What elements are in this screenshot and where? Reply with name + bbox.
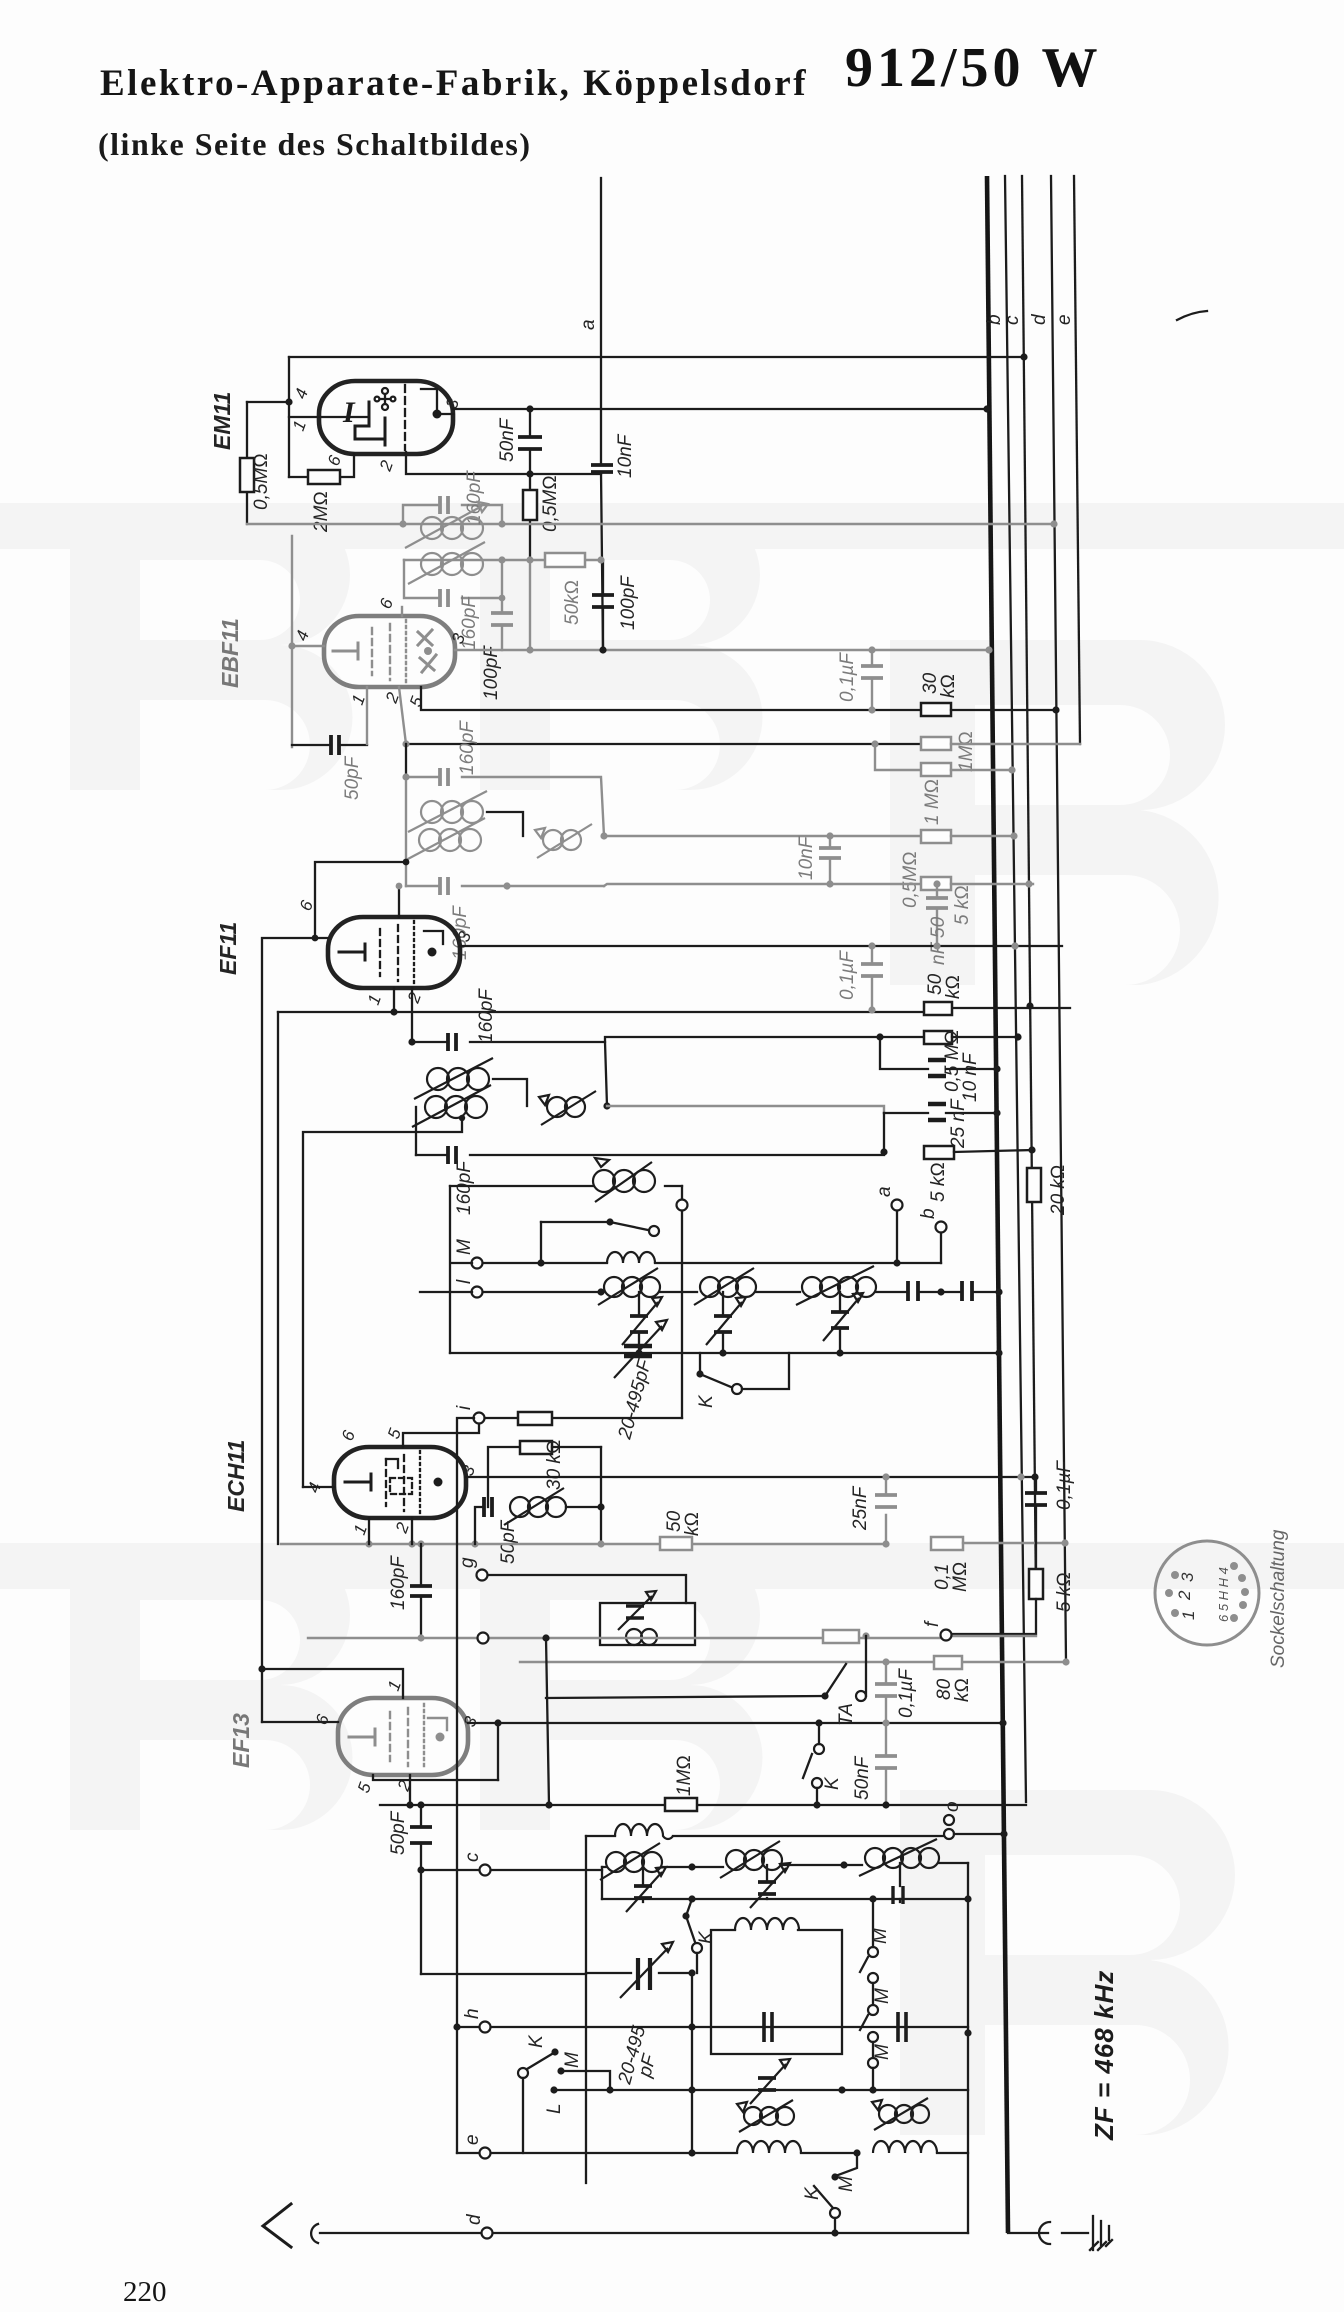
wire 5k to bus d [951,883,1033,885]
svg-text:kΩ: kΩ [682,1512,703,1536]
junction pin3 drop [494,1719,501,1726]
resistor 50kOhm cathode [660,1510,703,1550]
svg-text:K: K [696,1930,717,1944]
svg-text:6: 6 [324,452,345,468]
wire to bus b [972,1291,999,1293]
trimmer band [750,2059,790,2104]
svg-text:EF11: EF11 [215,922,241,975]
padder box [600,1591,695,1645]
junction on b [993,1065,1000,1072]
junction [688,2023,695,2030]
junction pin2 [402,740,409,747]
junction [826,832,833,839]
coil bottom 1 [737,2141,801,2153]
switch K mixer [696,1353,789,1408]
junction [813,1801,820,1808]
wire 5k to d [954,1150,1033,1152]
junction [853,2149,860,2156]
switch K wave left [518,2034,559,2153]
capacitor right chain [898,2012,906,2042]
junction [498,556,505,563]
junction [831,2229,838,2236]
capacitor 10nF on line a [591,433,636,478]
capacitor 10nF horizontal [880,1037,997,1102]
svg-text:M: M [562,2052,583,2068]
junction [453,2023,460,2030]
socket circle [1155,1541,1259,1645]
junction tertiary right [600,832,607,839]
IF3 primary coil [414,1058,493,1099]
watermark letter B [70,1545,353,1830]
wire 30k left leg [488,1447,518,1507]
junction [840,1861,847,1868]
wire EF13 pin6 [262,1721,338,1723]
wire EF11 screen row [278,1008,1070,1012]
wire EF11 grid link [315,862,406,938]
junction on bus b [983,405,990,412]
junction 0,5M chain bottom [526,646,533,653]
junction [597,1503,604,1510]
junction [933,880,940,887]
contact M [557,2052,610,2090]
junction [597,1540,604,1547]
svg-text:6 5 H H 4: 6 5 H H 4 [1216,1567,1231,1622]
wire EF11 plate row [460,945,1062,947]
wire l row left [420,1291,472,1293]
svg-text:10nF: 10nF [615,433,636,478]
junction [882,1801,889,1808]
bus e [1051,176,1066,1662]
svg-text:ZF = 468 kHz: ZF = 468 kHz [1089,1970,1119,2141]
node h circle [480,2022,491,2033]
svg-text:100pF: 100pF [618,575,639,630]
capacitor fixed right [893,1863,903,1904]
wire tuner row 2 [602,1898,968,1900]
svg-text:4: 4 [292,628,313,643]
junction [417,1540,424,1547]
junction [826,880,833,887]
svg-text:2: 2 [392,1519,414,1536]
wire node c row [421,1869,602,1871]
svg-text:d: d [464,2213,485,2225]
junction [1025,880,1032,887]
junction [719,1349,726,1356]
tuner box right vertical [967,1863,969,2233]
wire g row [488,1575,686,1603]
svg-text:3: 3 [1178,1572,1197,1582]
junction [1014,1033,1021,1040]
svg-text:K: K [526,2034,547,2048]
bus c [1005,176,1026,1802]
osc tuning coil with arrow [450,1158,682,1202]
IF2 bracket top with 160pF [406,720,604,836]
trimmer t2 [750,1863,790,1908]
resistor 30kOhm [920,672,959,716]
svg-text:f: f [922,1620,943,1627]
watermark letter B [890,640,1225,985]
node b circle [936,1222,947,1233]
junction [882,1658,889,1665]
wire mid vertical [546,1638,549,1805]
wire EF13 plate row [468,1722,1003,1724]
svg-text:0,1µF: 0,1µF [1054,1460,1075,1510]
tuner box left vertical [585,1836,587,2183]
svg-text:50kΩ: 50kΩ [562,580,583,625]
resistor 5kOhm right [1029,1569,1075,1612]
capacitor 25nF horizontal [884,1098,997,1149]
svg-text:100pF: 100pF [481,645,502,700]
tube ECH11 envelope [334,1447,466,1518]
capacitor 100pF grid EBF11 [481,598,513,700]
wire EM11 cathode row [289,454,354,477]
junction 100pF a-line bottom [599,646,606,653]
svg-text:L: L [544,2103,565,2114]
wire bottom row of osc box [450,1352,999,1354]
junction node a stem [893,1259,900,1266]
oscillator coil box [711,1918,842,2054]
wire osc coil link [600,1447,602,1543]
junction [964,2029,971,2036]
tuned coil row: coil A with arrow [600,1843,692,1880]
node o circle [944,1829,954,1839]
switch TA [546,1636,866,1726]
svg-text:c: c [462,1852,483,1862]
svg-text:160pF: 160pF [457,720,478,775]
wire 0,5MOhm chain down [529,560,531,650]
junction [635,1349,642,1356]
contact L [544,2086,565,2114]
wire IF2 bottom row to 5k [604,884,921,886]
watermark band [0,503,1344,549]
stray mark top right [1177,311,1207,320]
junction [880,1148,887,1155]
50pF cap in grid row [292,735,367,800]
svg-text:20 kΩ: 20 kΩ [1048,1164,1069,1216]
switch chain M2 [860,1983,893,2042]
wire to grid resistor row [605,1037,924,1042]
variable capacitor 20-495pF osc [614,1320,667,1442]
RF coil 3 with arrow [796,1266,876,1305]
svg-text:1MΩ: 1MΩ [674,1755,695,1796]
svg-text:25 nF: 25 nF [948,1098,969,1149]
junction [403,859,410,866]
junction AVC tap [258,1665,265,1672]
switch chain M3 [868,2042,893,2087]
junction [688,2086,695,2093]
switch K af [803,1719,843,1805]
trimmer 3 [823,1292,863,1353]
svg-text:0,1µF: 0,1µF [837,950,858,1000]
RF coil 1 with arrow [598,1268,660,1305]
ECH11 internals [345,1451,443,1515]
svg-text:i: i [454,1405,475,1410]
capacitor padding 1 [908,1281,918,1301]
wire l row mid2 [756,1291,800,1293]
junction [882,1473,889,1480]
wire band row [554,2089,968,2091]
osc feedback coil [504,1488,601,1525]
capacitor 0,1uF top right [1025,1460,1075,1569]
junction on b [995,1349,1002,1356]
wire EF11 grid stub [398,886,400,917]
junction pin1 [365,1540,372,1547]
resistor 80kOhm [934,1656,973,1702]
wire 1MOhm row [380,1804,1026,1806]
junction [459,1115,465,1121]
wire l row right [876,1291,908,1293]
svg-text:6: 6 [338,1427,359,1443]
junction on bus d [1020,353,1027,360]
tube EM11 envelope [319,381,453,454]
svg-text:1: 1 [1179,1611,1198,1620]
svg-text:2: 2 [1175,1590,1194,1601]
capacitor 25nF [850,1477,897,1544]
node e circle [480,2148,491,2159]
svg-text:50pF: 50pF [388,1810,409,1855]
capacitor 0,1uF on plate row [837,946,883,1008]
junction [417,1801,424,1808]
junction on b [995,1288,1002,1295]
svg-text:2: 2 [404,989,426,1006]
svg-text:50: 50 [928,916,949,938]
wire EBF11 pin6 stub [401,607,403,616]
node a vertical line [601,178,603,650]
svg-text:50pF: 50pF [498,1519,519,1564]
IF3 tertiary coil [539,1091,596,1125]
junction on b [1000,1830,1007,1837]
wire 1MOhm lower to bus c [951,769,1012,771]
wire EF13 bottom row [373,1775,498,1780]
IF1 primary coil [405,502,488,548]
resistor 0,5MOhm [900,830,951,908]
EF13 internals [349,1704,447,1770]
svg-text:K: K [802,2186,823,2200]
resistor 0,5MOhm vertical [240,402,272,524]
junction [1010,832,1017,839]
junction [417,1866,424,1873]
svg-text:0,5MΩ: 0,5MΩ [900,851,921,908]
contact M bottom [831,2153,857,2192]
junction on d [1031,1473,1038,1480]
node d circle [482,2228,493,2239]
svg-text:kΩ: kΩ [952,1678,973,1702]
junction on d [1028,1146,1035,1153]
svg-text:20-495pF: 20-495pF [614,1356,656,1442]
coil hump on M row [607,1252,655,1263]
svg-text:5 kΩ: 5 kΩ [1054,1572,1075,1612]
junction [937,1288,944,1295]
junction on bus e [1050,520,1057,527]
svg-text:h: h [462,2008,483,2019]
wire EM11 plate to bus b [441,409,987,414]
junction on bus b [985,646,992,653]
junction [688,1895,695,1902]
svg-text:K: K [696,1394,717,1408]
resistor 2MOhm [308,470,340,533]
svg-text:0,1µF: 0,1µF [896,1668,917,1718]
antenna symbol [263,2204,481,2247]
wire IF2 left vertical [405,777,407,886]
svg-text:I: I [342,396,356,429]
svg-text:kΩ: kΩ [938,674,959,698]
junction [606,2086,613,2093]
junction [868,942,875,949]
wire IF3 secondary bottom [303,1118,462,1487]
svg-text:5: 5 [406,693,427,709]
IF2 tertiary coil [535,824,592,858]
wire EM11 grid to resistor [247,401,289,403]
svg-text:M: M [870,1928,891,1944]
svg-text:EM11: EM11 [209,392,235,450]
junction [417,1634,424,1641]
ground symbol bottom right [1008,2216,1112,2250]
capacitor in osc box [764,2012,772,2042]
resistor 5kOhm AF row [924,1146,954,1202]
wire 0,1M to bus e [963,1542,1064,1544]
coil L band 2 [872,2098,929,2130]
junction [285,398,292,405]
resistor osc grid [518,1412,552,1425]
svg-text:5 kΩ: 5 kΩ [928,1162,949,1202]
capacitor 10nF [796,835,841,884]
svg-text:3: 3 [460,1713,481,1729]
wire IF2 primary step [487,812,523,836]
capacitor padding 2 [962,1281,972,1301]
tuned coil row: coil C with arrow [844,1839,968,1876]
junction [964,1895,971,1902]
wire ECH11 pin4 [303,1486,334,1488]
watermark letter B [480,1545,763,1830]
wire pin2 stub [411,1518,413,1544]
node M circle [472,1258,483,1269]
wire node e row [457,2152,968,2154]
wire EBF11 plate row to right [455,649,989,651]
wire left vertical EBF11 [291,536,293,747]
node o circle upper [944,1815,954,1825]
svg-text:e: e [462,2134,483,2145]
svg-text:kΩ: kΩ [943,975,964,999]
IF3 bracket bottom with 160pF [416,1146,884,1215]
watermark letter B [70,505,353,790]
coil L band 1 [737,2100,794,2132]
capacitor 50nF af [852,1723,897,1805]
junction [499,595,506,602]
wire to bus c [952,1036,1018,1038]
wire EM11 top to bus d [289,356,1024,358]
EF11 internals [339,921,443,985]
node circle on AF row [478,1633,489,1644]
resistor 5kOhm [921,877,973,925]
ECH11 plate wire [466,1476,1032,1478]
junction [312,935,319,942]
wire 30k to bus e [951,709,1056,711]
node g circle [477,1570,488,1581]
model number 912/50 W [845,36,1102,100]
svg-text:TA: TA [836,1703,857,1726]
junction [688,1863,695,1870]
svg-text:1: 1 [350,1522,371,1537]
junction [545,1801,552,1808]
junction on e [1061,1539,1068,1546]
resistor 1MOhm lower [921,763,951,825]
junction 50nF top [526,405,533,412]
title [100,62,808,105]
svg-text:b: b [918,1208,939,1219]
IF1 secondary coil [408,542,485,584]
svg-text:1MΩ: 1MΩ [956,731,977,772]
svg-text:2: 2 [376,457,398,474]
wire varcap row [421,1973,586,1975]
wire node b stem [940,1233,942,1263]
svg-text:0,1µF: 0,1µF [837,652,858,702]
junction 0,1uF bottom [868,706,875,713]
bus b (heavy supply line) [987,176,1008,2233]
wire EBF11 pin1 stub [366,687,368,744]
svg-text:EF13: EF13 [228,1713,254,1768]
wire EBF11 pin4 to left vertical [292,645,324,647]
junction [882,1540,889,1547]
svg-text:M: M [454,1239,475,1255]
junction on e [1062,1658,1069,1665]
junction 0,1uF bottom [868,1006,875,1013]
svg-text:a: a [874,1186,895,1197]
IF1 bracket top with 160pF [403,470,502,525]
svg-text:g: g [457,1557,478,1568]
node c circle [480,1865,491,1876]
junction [471,1540,478,1547]
node i circle [474,1413,485,1424]
junction [288,642,295,649]
capacitor 50nF [497,409,542,474]
wire IF3 primary step [493,1079,527,1106]
wire terminal down [681,1211,683,1418]
svg-text:M: M [836,2176,857,2192]
wire coil A leg [601,1867,603,1899]
resistor 20kOhm on bus d [1027,1164,1069,1216]
wire IF3 out row [607,1106,884,1113]
junction on b [993,1109,1000,1116]
junction [526,470,533,477]
tuned coil row: coil B with arrow [692,1841,844,1878]
variable capacitor 20-495pF tuner [586,1942,692,2087]
resistor AF series [823,1630,859,1643]
vertical from node i area [457,1418,474,2153]
resistor 1MOhm top [921,731,977,772]
wire pin3 drop [497,1723,499,1780]
capacitor 0,1uF [837,650,883,710]
resistor 50kOhm [545,553,585,625]
EM11 internal target I symbol [342,385,442,450]
svg-text:MΩ: MΩ [950,1562,971,1592]
coil bottom 2 [873,2141,937,2153]
svg-text:l: l [454,1279,475,1284]
wire left vertical under EBF11 [405,744,407,777]
capacitor 0,1uF af [875,1662,917,1723]
IF1 junction right [498,520,505,527]
wire left vertical from screen row [277,1012,279,1544]
wire IF1 secondary row [404,559,601,561]
trimmer 2 [706,1292,746,1353]
antenna coil top [586,1824,948,1839]
wire l row [483,1291,601,1293]
svg-text:6: 6 [312,1711,333,1727]
svg-text:c: c [1002,315,1023,325]
junction on c [1017,1473,1024,1480]
tube EF13 envelope [338,1698,468,1775]
junction on d [1026,1002,1033,1009]
wire pin1 stub [393,988,395,1012]
junction [871,740,878,747]
